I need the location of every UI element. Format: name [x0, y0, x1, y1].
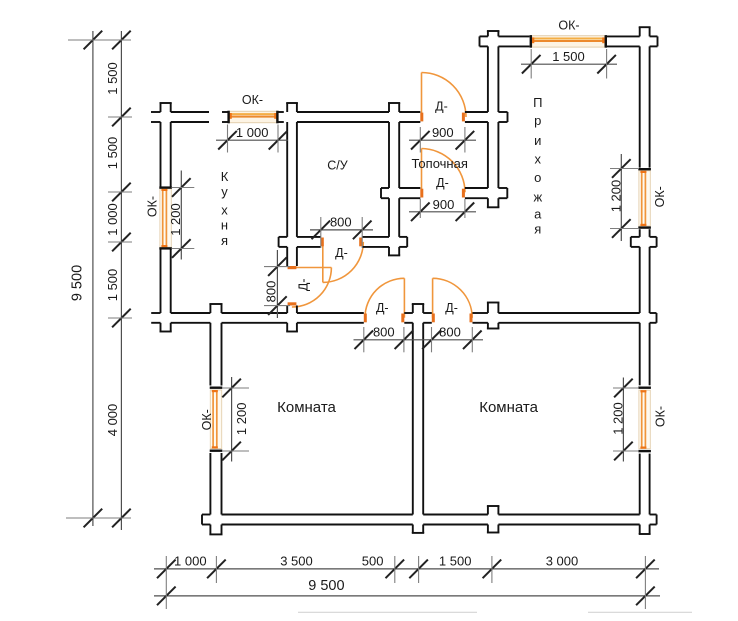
svg-text:н: н — [221, 217, 228, 232]
svg-text:1 500: 1 500 — [105, 137, 120, 170]
svg-text:К: К — [221, 169, 229, 184]
svg-text:ОК-: ОК- — [654, 406, 668, 427]
svg-text:я: я — [221, 233, 228, 248]
svg-text:4 000: 4 000 — [105, 404, 120, 437]
svg-text:1 000: 1 000 — [174, 553, 207, 568]
svg-text:х: х — [221, 202, 228, 217]
svg-text:Д-: Д- — [296, 278, 310, 291]
svg-text:я: я — [534, 221, 541, 236]
svg-text:Д-: Д- — [335, 246, 348, 260]
svg-text:а: а — [534, 207, 542, 222]
svg-text:у: у — [221, 184, 228, 199]
svg-text:1 200: 1 200 — [168, 203, 183, 236]
svg-text:ж: ж — [533, 190, 542, 205]
svg-text:ОК-: ОК- — [558, 18, 579, 32]
svg-text:П: П — [533, 95, 542, 110]
svg-text:9 500: 9 500 — [70, 265, 86, 301]
svg-text:ОК-: ОК- — [145, 196, 159, 217]
svg-text:1 200: 1 200 — [234, 403, 249, 436]
svg-text:С/У: С/У — [327, 159, 348, 173]
svg-text:о: о — [534, 170, 541, 185]
svg-text:500: 500 — [362, 553, 384, 568]
svg-text:Д-: Д- — [436, 176, 449, 190]
svg-text:3 000: 3 000 — [546, 553, 579, 568]
svg-text:1 000: 1 000 — [236, 125, 269, 140]
svg-text:Д-: Д- — [376, 301, 389, 315]
svg-text:р: р — [534, 113, 541, 128]
svg-text:Топочная: Топочная — [412, 156, 468, 171]
svg-text:1 200: 1 200 — [608, 180, 623, 213]
svg-text:х: х — [535, 152, 542, 167]
svg-text:Комната: Комната — [277, 399, 336, 416]
svg-text:900: 900 — [433, 197, 455, 212]
svg-text:800: 800 — [330, 214, 352, 229]
svg-text:1 500: 1 500 — [552, 49, 585, 64]
svg-text:Д-: Д- — [445, 301, 458, 315]
svg-text:и: и — [534, 133, 541, 148]
svg-text:1 500: 1 500 — [105, 269, 120, 302]
svg-text:1 200: 1 200 — [610, 402, 625, 435]
svg-text:ОК-: ОК- — [200, 409, 214, 430]
svg-text:ОК-: ОК- — [653, 186, 667, 207]
svg-text:800: 800 — [264, 281, 279, 303]
svg-text:1 000: 1 000 — [105, 203, 120, 236]
svg-text:900: 900 — [432, 125, 454, 140]
svg-text:800: 800 — [373, 325, 395, 340]
svg-text:1 500: 1 500 — [105, 62, 120, 95]
svg-text:ОК-: ОК- — [242, 93, 263, 107]
svg-text:9 500: 9 500 — [308, 578, 344, 594]
svg-text:3 500: 3 500 — [280, 553, 313, 568]
svg-text:800: 800 — [439, 325, 461, 340]
svg-text:Д-: Д- — [435, 99, 448, 113]
svg-text:1 500: 1 500 — [439, 553, 472, 568]
svg-text:Комната: Комната — [479, 399, 538, 416]
